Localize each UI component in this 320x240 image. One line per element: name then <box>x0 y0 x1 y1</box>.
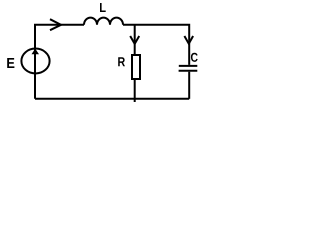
source E circle <box>21 49 49 74</box>
current arrow into R branch <box>130 36 139 44</box>
wire: R branch upper segment from top-wire junction <box>134 25 136 55</box>
wire: below capacitor to bottom wire <box>188 72 190 99</box>
inductor L <box>84 18 123 25</box>
wire: top-right segment and right branch down to capacitor <box>123 25 189 65</box>
resistor R box <box>132 55 140 79</box>
current arrow on top wire <box>50 19 61 30</box>
capacitor C bottom plate <box>179 70 198 72</box>
label L <box>100 3 106 12</box>
label R <box>118 57 125 66</box>
wire: left branch (through source) and top-left segment <box>35 25 84 99</box>
bottom wire <box>35 98 189 100</box>
current arrow into capacitor branch <box>184 36 193 44</box>
source E arrowhead <box>32 49 40 55</box>
capacitor C top plate <box>179 65 198 67</box>
label E <box>7 58 14 68</box>
label C <box>191 53 198 62</box>
wire: R branch lower segment to bottom wire with overshoot <box>134 79 136 102</box>
